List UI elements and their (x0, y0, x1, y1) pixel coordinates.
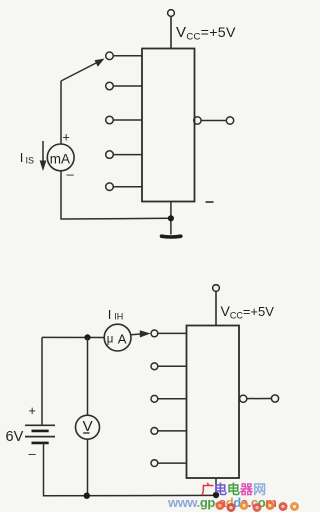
Vcc terminal (top circuit) (168, 10, 175, 17)
output pin terminal at U1 right edge (194, 117, 201, 124)
voltmeter V (87, 337, 89, 415)
output terminal (top) (226, 117, 233, 124)
wire pin4 to U2 (158, 430, 187, 432)
svg-text:6V: 6V (6, 429, 24, 445)
svg-text:I: I (20, 150, 24, 165)
wire arrow to meter mA (60, 81, 62, 144)
svg-text:mA: mA (50, 151, 70, 166)
wire battery negative to bottom rail (44, 443, 217, 496)
IC U2 (bottom gate rectangle) (187, 326, 240, 479)
pin 4 terminal (U2 left) (151, 428, 158, 435)
wire pin3 to U1 (113, 119, 142, 121)
ammeter mA (47, 144, 74, 171)
output terminal (bottom) (271, 395, 278, 402)
wire pin4 to U1 (113, 154, 142, 156)
output pin terminal at U2 right edge (240, 395, 247, 402)
microammeter uA (104, 324, 131, 351)
pin 5 terminal (U1 left) (106, 183, 114, 191)
wire Vcc to U1 (170, 17, 172, 49)
svg-text:+: + (29, 404, 36, 418)
svg-text:+: + (63, 131, 70, 145)
wire pin2 to U1 (113, 85, 142, 87)
wire U1 bottom to ground (170, 202, 172, 235)
wire mA meter to bottom rail (61, 171, 171, 219)
battery BT1 (25, 424, 55, 426)
Vcc terminal (bottom circuit) (213, 285, 220, 292)
pin 5 terminal (U2 left) (151, 460, 158, 467)
wire output (bottom) (247, 398, 271, 400)
wire pin2 to U2 (158, 365, 187, 367)
wire pin5 to U2 (158, 462, 187, 464)
node junction (top rail / voltmeter) (84, 334, 90, 340)
svg-text:V: V (83, 418, 93, 435)
wire pin5 to U1 (113, 186, 142, 188)
node junction (top circuit ground) (168, 215, 174, 221)
wire top rail (battery to uA meter) (42, 336, 104, 338)
wire voltmeter to bottom rail (87, 439, 89, 496)
wire Vcc to U2 (215, 292, 217, 326)
wire battery positive (41, 337, 43, 425)
svg-text:A: A (118, 332, 127, 347)
pin 1 terminal (U2 left) (151, 330, 158, 337)
ground (162, 234, 181, 238)
svg-text:μ: μ (107, 334, 114, 346)
label minus (near U1 bottom right) (206, 201, 214, 203)
IC U1 (top gate rectangle) (142, 49, 195, 202)
arrow current direction I_IS (42, 141, 44, 164)
svg-text:IS: IS (26, 156, 35, 166)
watermark flowers (216, 501, 300, 512)
pin 4 terminal (U1 left) (106, 151, 114, 159)
wire diagonal with arrow to pin1 (61, 62, 99, 82)
wire uA meter to pin1 with arrow (131, 333, 141, 336)
svg-text:VCC=+5V: VCC=+5V (176, 24, 236, 43)
svg-text:VCC=+5V: VCC=+5V (221, 303, 275, 321)
svg-text:–: – (67, 167, 75, 182)
wire pin1 to U2 (158, 332, 187, 334)
wire output (top) (201, 120, 226, 122)
wire U2 bottom to rail (215, 478, 217, 496)
svg-text:IH: IH (114, 312, 123, 322)
pin 3 terminal (U1 left) (106, 116, 114, 124)
pin 1 terminal (U1 left) (106, 52, 114, 60)
wire pin1 to U1 (113, 55, 142, 57)
pin 2 terminal (U1 left) (106, 82, 114, 90)
node junction (U2 bottom / rail) (213, 492, 219, 498)
pin 2 terminal (U2 left) (151, 363, 158, 370)
pin 3 terminal (U2 left) (151, 395, 158, 402)
svg-text:I: I (108, 307, 112, 322)
svg-text:–: – (29, 446, 37, 461)
wire pin3 to U2 (158, 398, 187, 400)
node junction (voltmeter / bottom rail) (84, 493, 90, 499)
